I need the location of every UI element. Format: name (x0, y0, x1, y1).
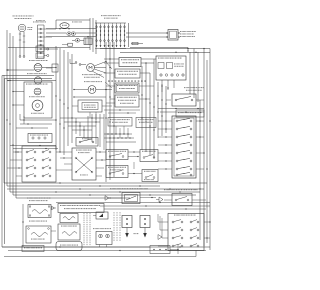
wire fan row (8, 69, 34, 71)
label right switch (164, 188, 165, 191)
wire risers centre (89, 18, 91, 50)
wire right risers (189, 52, 191, 94)
sensor box upper (115, 83, 139, 93)
wire centre rail dots (55, 95, 56, 96)
wire centre verticals (105, 42, 107, 182)
power terminal block TB2 (95, 22, 126, 24)
wire left horizontals (20, 119, 56, 121)
small box bottom-left (22, 246, 44, 252)
bottom right cluster (150, 246, 170, 254)
label half element (27, 197, 28, 200)
wire mid verticals right (141, 66, 143, 150)
left assembly box (24, 82, 52, 118)
left selector S3 box (22, 146, 56, 182)
dashed rail centre (113, 212, 115, 242)
wire nested bus (3, 75, 5, 183)
label lower oven light (27, 72, 28, 75)
element LF box (28, 205, 51, 218)
left selector S3 contacts (26, 151, 28, 153)
upper oven lamp B5 (34, 88, 41, 95)
wire top h1 (56, 19, 90, 21)
wire fan-out (94, 62, 106, 67)
right selector S8 contacts (172, 221, 174, 223)
oven lamp B1 (18, 24, 26, 32)
wire centre connects (128, 151, 140, 153)
wire left rail taps (6, 69, 7, 70)
contact oval2 (75, 39, 80, 43)
wire board drops (161, 80, 163, 92)
ground arrow P2 (144, 228, 146, 234)
connector P2 (140, 216, 150, 228)
diode box D1 (96, 212, 108, 219)
label conv (29, 95, 30, 98)
wire K4 links (72, 105, 78, 107)
outlet box J1 (96, 232, 112, 245)
centre motor B4 (87, 64, 95, 72)
component pair boxes (36, 46, 44, 52)
lower lamp B3 (34, 77, 41, 84)
control ELECTRONIC CLOCK U1 (119, 58, 141, 67)
wire bottom run2 (4, 256, 196, 258)
convection motor B6 (32, 100, 43, 111)
control board A1 (156, 56, 186, 80)
latch box (28, 134, 52, 143)
wire left-box links (13, 91, 24, 93)
wire top-right bus (100, 48, 210, 50)
connector P1 (122, 216, 132, 228)
contact ovals (67, 32, 71, 35)
mesh dots centre (107, 133, 108, 134)
wire lower horizontals (56, 202, 210, 204)
label between connectors (134, 232, 135, 235)
wire bus junction dots (59, 182, 60, 183)
relay box K4 (78, 100, 102, 112)
label OVEN LIGHT (13, 15, 14, 18)
wire sensor links (139, 85, 154, 87)
label centre switch (110, 187, 111, 190)
wire bottom run1 (2, 246, 210, 248)
small box K2 (68, 43, 73, 46)
door switch box (76, 138, 98, 147)
wire right rails mid (199, 100, 201, 240)
centre band boxes (108, 118, 132, 127)
wire top h4 (46, 36, 96, 38)
centre switch box3 (106, 166, 128, 178)
thermostat S1 (172, 94, 196, 106)
centre switch box1 (106, 150, 128, 160)
box lower right small (176, 110, 204, 117)
wire LF-LR (22, 204, 24, 247)
label terminal strip (33, 21, 34, 24)
wire into left selector (13, 151, 22, 153)
wire long y47 (8, 47, 90, 49)
element RF box (60, 214, 78, 223)
centre tall box S4 (72, 148, 96, 180)
wire right mesh (157, 82, 159, 138)
selector switch S2 box (172, 116, 196, 178)
label relay K3 (180, 30, 181, 33)
wire left lower horizontals (10, 145, 56, 147)
element LR box (26, 226, 51, 243)
relay K3 (168, 30, 178, 41)
ground arrow P1 (126, 228, 128, 234)
label timer (72, 21, 73, 24)
wire clock links (104, 58, 119, 60)
label outlet (93, 227, 94, 230)
relay box hatched (84, 38, 92, 45)
white page background (0, 0, 218, 285)
wire lamp leads (19, 32, 21, 56)
wire lamp row2 (8, 80, 34, 82)
element RR box (58, 224, 80, 240)
wire left rails (6, 30, 8, 186)
oven control box (115, 69, 140, 78)
label LEFT REAR (29, 220, 30, 223)
wire mesh staircase (60, 117, 104, 119)
right infinite switch S7 (172, 194, 192, 206)
wire top h3 (46, 32, 66, 34)
right selector S8 box (168, 214, 204, 251)
label above ladder (36, 19, 37, 22)
big bottom-left box (58, 204, 104, 213)
wire right of bars (126, 32, 168, 34)
label centre motor (82, 73, 83, 76)
power block arrows (96, 43, 98, 46)
door contacts (75, 62, 77, 64)
wire round tall box (56, 151, 72, 153)
terminal strip TB1 (37, 25, 39, 58)
wire left outer rail (1, 76, 3, 248)
wire top h2 (46, 28, 96, 30)
wire into S8 (158, 221, 168, 223)
junction box small (52, 64, 58, 72)
sensor box lower (115, 95, 139, 107)
rounded box bottom (56, 242, 82, 251)
selector switch S2 contacts (176, 120, 178, 122)
label power block (101, 14, 102, 17)
wire RF-RR dashed rails (83, 213, 85, 246)
centre switch box4 (142, 170, 158, 182)
wire TB1 to right (44, 28, 56, 30)
label convect motor (84, 80, 85, 83)
timer oval M1 (60, 23, 69, 29)
wire into selector (158, 120, 172, 122)
centre infinite switch S6 (122, 193, 140, 204)
wire centre rails (55, 46, 57, 150)
wire under bars (95, 48, 126, 50)
oven fan motor B2 (34, 64, 42, 72)
wire S8 right taps (204, 221, 210, 223)
centre switch box2 (140, 150, 158, 162)
wire convect (74, 89, 88, 91)
component dash row (108, 80, 110, 83)
label thermal fuse (29, 59, 30, 62)
convect motor B7 (88, 86, 96, 94)
label cooling fan (184, 86, 185, 89)
